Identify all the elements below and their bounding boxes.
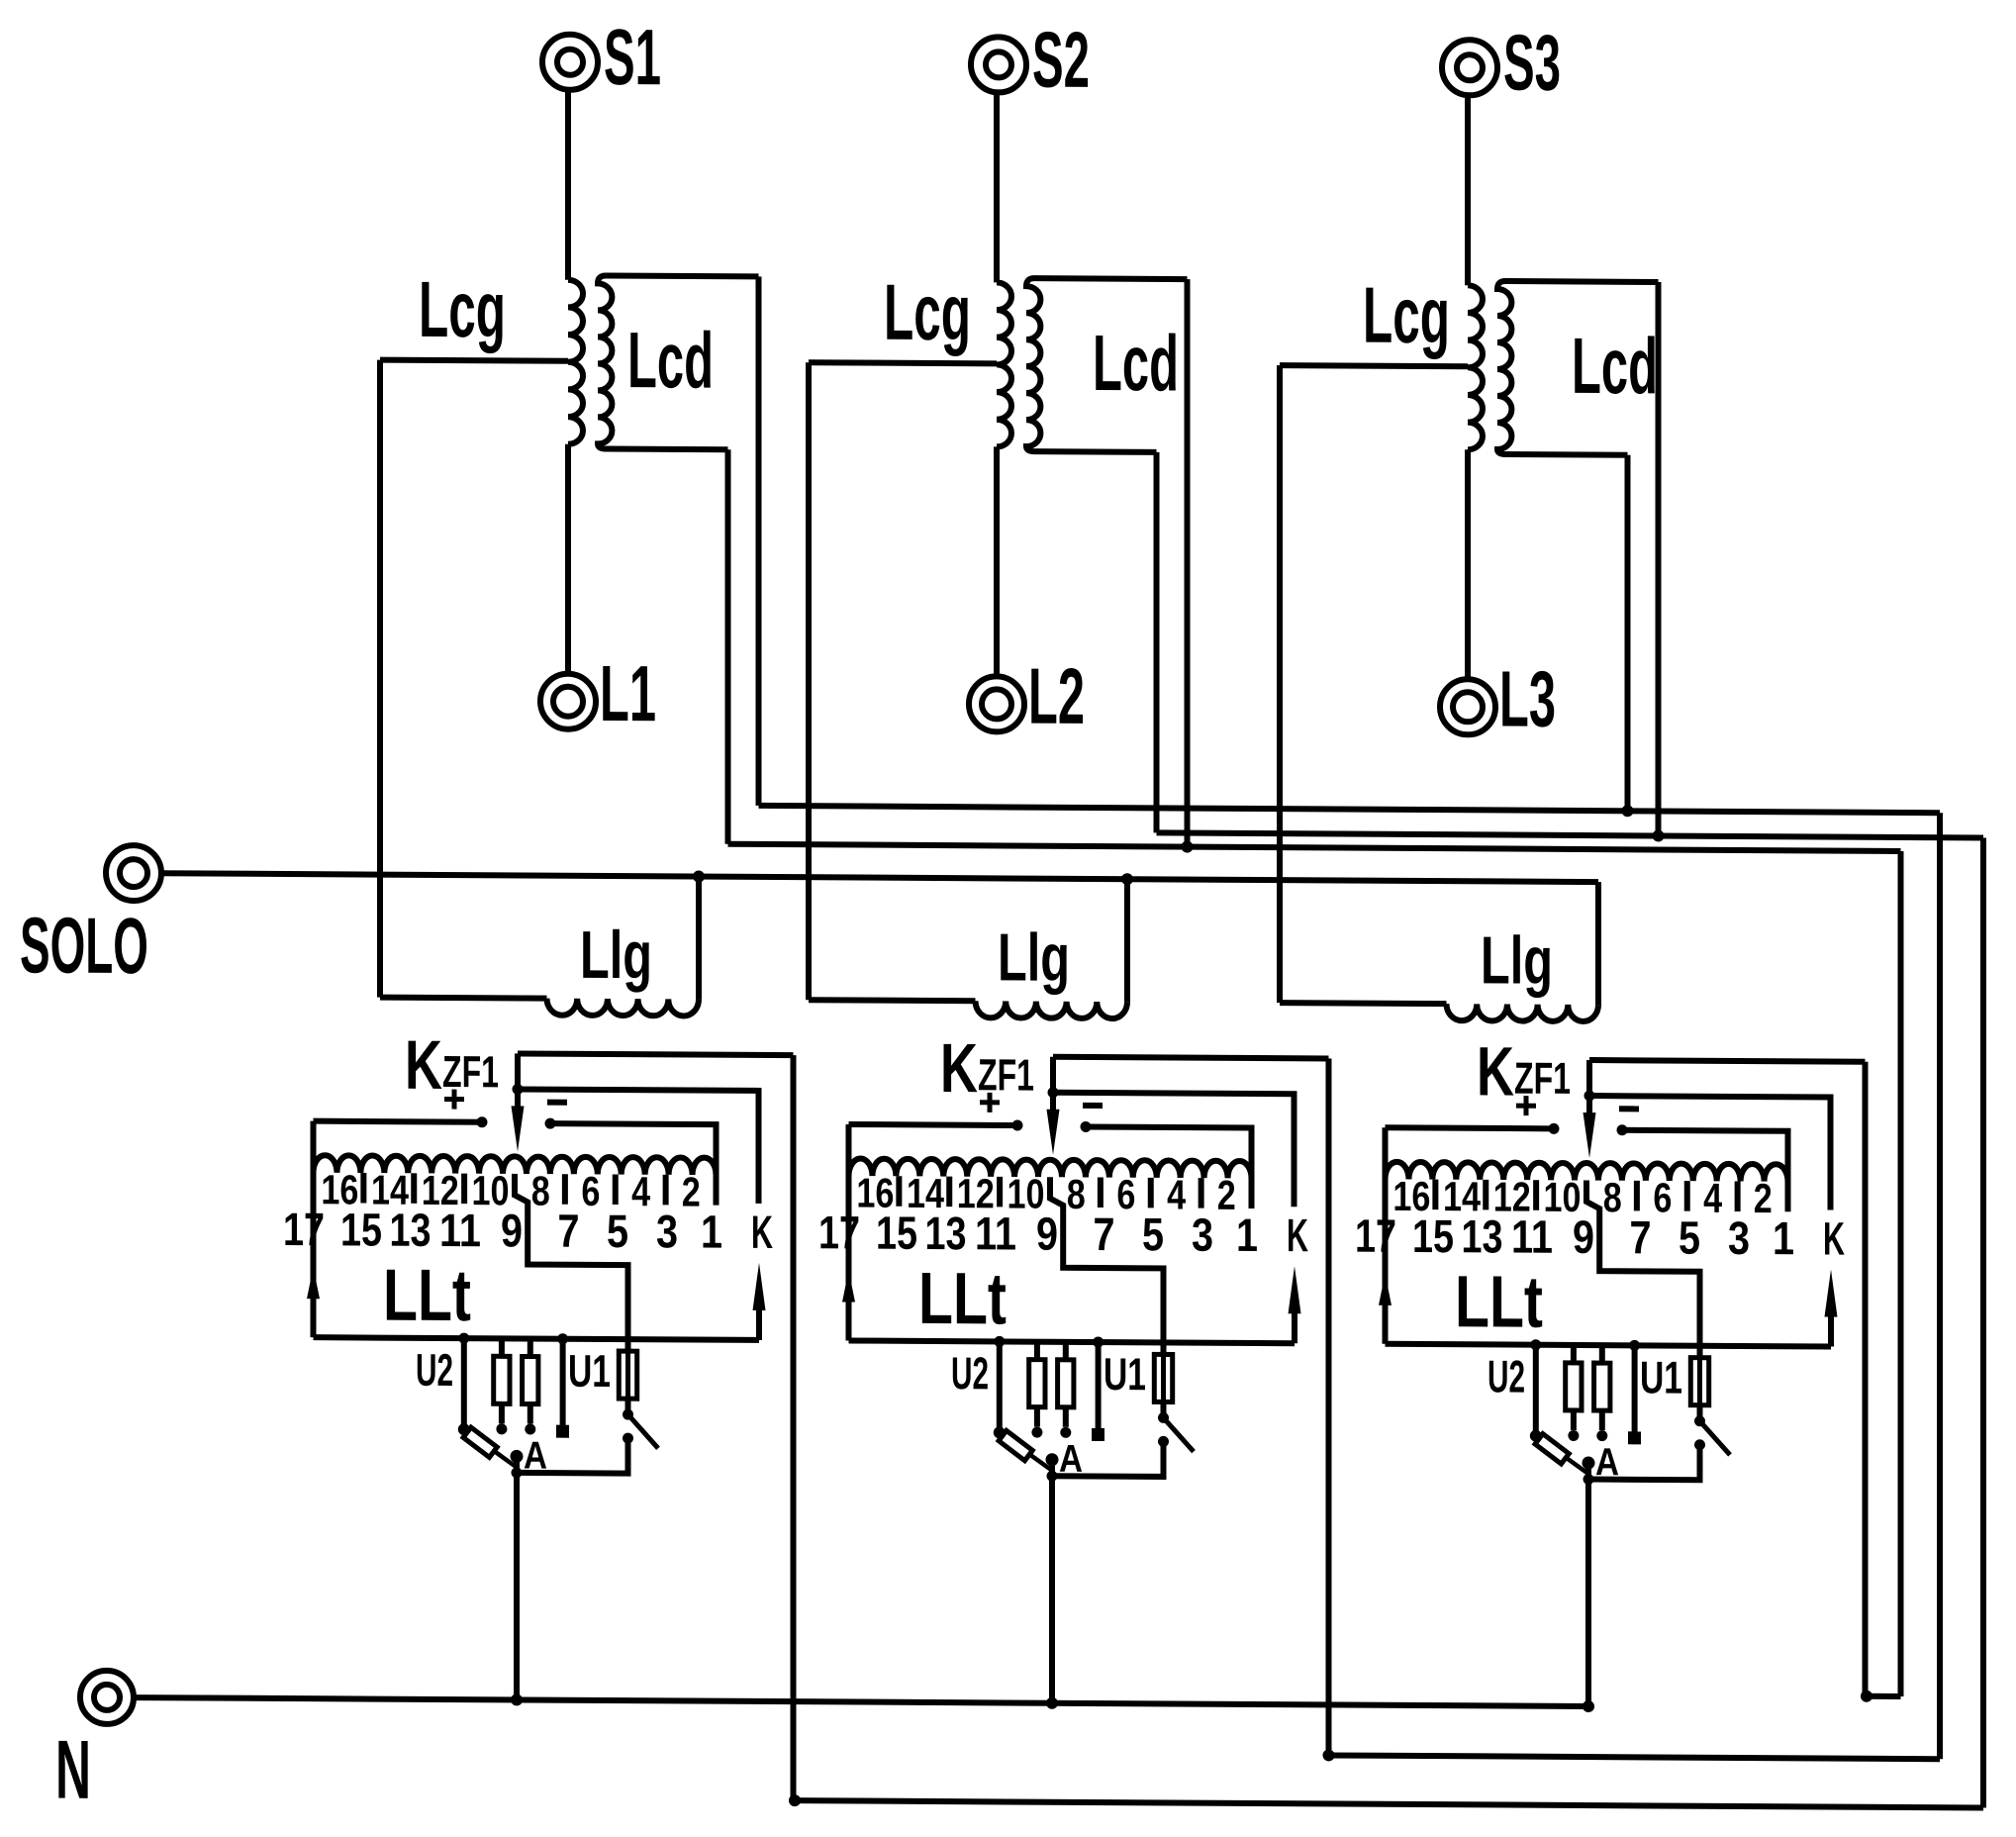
svg-text:5: 5 <box>607 1205 628 1257</box>
svg-text:9: 9 <box>1573 1210 1594 1263</box>
svg-text:U2: U2 <box>416 1344 453 1396</box>
wire Lcd bottom riser (phase 2) <box>1154 452 1160 833</box>
svg-text:LLt: LLt <box>383 1254 471 1337</box>
junction N bus block 2 <box>1046 1697 1058 1709</box>
svg-text:Lcg: Lcg <box>1363 271 1450 360</box>
svg-text:K: K <box>1287 1209 1308 1261</box>
junction drive wire (block 2) <box>1048 1087 1059 1098</box>
selector common wire bottom (block 3) <box>1386 1344 1832 1347</box>
wire to left switch contact (block 2) <box>997 1341 1003 1429</box>
wire S2 to winding Lcg <box>994 92 1000 282</box>
right switch return wire (block 2) <box>1052 1441 1164 1477</box>
junction Lcd3 top on bus B <box>1653 829 1665 841</box>
svg-text:6: 6 <box>1116 1171 1135 1217</box>
right switch lower contact (block 3) <box>1694 1439 1705 1450</box>
svg-text:ZF1: ZF1 <box>978 1049 1034 1100</box>
svg-text:17: 17 <box>283 1203 325 1255</box>
tap winding LLt (block 3) <box>1386 1162 1788 1182</box>
drive wire with down arrow (block 3) <box>1586 1060 1592 1115</box>
terminal S2 <box>971 37 1026 92</box>
svg-text:U2: U2 <box>1488 1350 1525 1402</box>
selector common wire bottom (block 2) <box>849 1340 1296 1343</box>
wire Lcg tap (phase 2) <box>809 362 997 363</box>
svg-text:8: 8 <box>1603 1174 1622 1220</box>
svg-text:13: 13 <box>925 1207 967 1259</box>
svg-text:15: 15 <box>340 1203 382 1255</box>
winding Llg (phase 3) <box>1447 1004 1598 1021</box>
wire to left switch contact (block 3) <box>1533 1345 1539 1433</box>
bus A right vertical <box>1937 813 1943 1759</box>
svg-text:17: 17 <box>818 1206 860 1258</box>
svg-text:3: 3 <box>1192 1209 1213 1261</box>
junction bus B to block 1 <box>789 1794 801 1806</box>
svg-text:1: 1 <box>1236 1209 1258 1261</box>
svg-text:Lcd: Lcd <box>1093 319 1179 408</box>
svg-text:7: 7 <box>558 1205 580 1257</box>
right switch return wire (block 1) <box>517 1437 628 1473</box>
svg-text:S2: S2 <box>1032 16 1090 104</box>
wire winding Lcg to terminal L2 <box>994 446 1000 676</box>
svg-text:LLt: LLt <box>1455 1260 1543 1343</box>
svg-text:A: A <box>524 1434 547 1477</box>
svg-text:K: K <box>405 1026 442 1104</box>
wire Lcg loop left vertical (phase 3) <box>1277 365 1283 1003</box>
svg-text:Llg: Llg <box>1481 922 1553 998</box>
right switch pivot dot (block 3) <box>1694 1415 1705 1426</box>
tap lead (block 1) <box>461 1174 467 1205</box>
svg-text:2: 2 <box>1217 1172 1236 1218</box>
svg-text:N: N <box>55 1723 91 1816</box>
wire Lcd top riser (phase 1) <box>756 276 762 806</box>
bus B horizontal (Lcd2 bottom / Lcd3 top) <box>1157 832 1984 837</box>
tap lead (block 1) <box>562 1174 568 1205</box>
plus contact dot (block 1) <box>477 1116 488 1127</box>
fuse F1 <box>619 1351 636 1399</box>
terminal SOLO <box>106 845 161 901</box>
svg-text:11: 11 <box>439 1204 481 1256</box>
U1 pad terminal (block 2) <box>1092 1428 1104 1441</box>
svg-text:S1: S1 <box>604 13 661 101</box>
junction Lcd2 top on bus C <box>1182 841 1194 853</box>
svg-text:L2: L2 <box>1028 652 1085 740</box>
svg-text:1: 1 <box>701 1206 722 1258</box>
junction U1 pad feed (block 2) <box>1093 1336 1104 1347</box>
resistor R2b <box>1063 1342 1069 1360</box>
selector arrow left (block 3) <box>1379 1274 1392 1305</box>
right switch blade (block 3) <box>1700 1421 1731 1455</box>
wire to U1 pad (block 3) <box>1632 1345 1638 1432</box>
wire S1 to winding Lcg <box>565 90 571 280</box>
svg-text:U2: U2 <box>951 1347 989 1399</box>
left rail vertical (block 2) <box>846 1124 852 1341</box>
terminal L1 <box>540 674 596 729</box>
svg-text:15: 15 <box>1412 1209 1454 1262</box>
wire Llg to SOLO bus (phase 2) <box>1124 879 1130 1002</box>
right switch lower contact (block 2) <box>1158 1436 1169 1447</box>
minus symbol (block 3) <box>1619 1106 1639 1112</box>
plus symbol (block 1) <box>444 1097 464 1102</box>
svg-text:6: 6 <box>1653 1174 1672 1220</box>
tap lead 9 long (block 1) <box>515 1174 628 1351</box>
svg-text:Lcg: Lcg <box>419 265 506 354</box>
bus B right vertical <box>1980 837 1986 1807</box>
wire Lcg tap (phase 1) <box>380 360 568 361</box>
wire fuse to switch (block 3) <box>1697 1405 1703 1421</box>
outer box right vertical (block 2) <box>1326 1058 1332 1755</box>
outer box right vertical (block 3) <box>1863 1062 1869 1696</box>
wire block 2 to N bus <box>1049 1459 1055 1703</box>
junction U1 pad feed (block 3) <box>1629 1340 1640 1351</box>
tap lead (block 1) <box>360 1173 366 1204</box>
plus contact dot (block 2) <box>1012 1119 1023 1130</box>
svg-text:1: 1 <box>1773 1211 1794 1264</box>
svg-text:Llg: Llg <box>580 918 652 993</box>
tap lead 9 long (block 3) <box>1586 1181 1700 1358</box>
minus contact dot (block 2) <box>1081 1121 1092 1132</box>
tap lead (block 3) <box>1735 1181 1741 1211</box>
svg-text:LLt: LLt <box>918 1257 1007 1340</box>
tap winding LLt (block 1) <box>314 1155 717 1175</box>
fuse F3 <box>1690 1358 1708 1405</box>
terminal S3 <box>1442 40 1497 95</box>
svg-text:ZF1: ZF1 <box>1514 1053 1571 1104</box>
right switch pivot dot (block 2) <box>1158 1412 1169 1423</box>
svg-text:S3: S3 <box>1503 19 1561 107</box>
plus symbol (block 2) <box>980 1100 1000 1105</box>
minus contact dot (block 3) <box>1617 1124 1628 1135</box>
tap lead (block 2) <box>1148 1178 1154 1209</box>
tap lead (block 3) <box>1533 1180 1539 1210</box>
winding Lcg (phase 3) <box>1468 285 1483 449</box>
wire to winding Llg (phase 3) <box>1280 1003 1447 1004</box>
svg-text:L1: L1 <box>600 649 656 737</box>
svg-text:8: 8 <box>531 1168 550 1214</box>
U1 pad terminal (block 3) <box>1628 1431 1641 1444</box>
selector arrow right K (block 1) <box>756 1308 762 1340</box>
inner wire to K terminal (block 3) <box>1589 1096 1831 1209</box>
junction switch return (block 2) <box>1047 1471 1058 1482</box>
resistor R3a <box>1571 1345 1577 1363</box>
switch pivot node A (block 2) <box>1046 1453 1059 1466</box>
terminal N <box>80 1671 134 1724</box>
resistor R2a <box>1034 1342 1040 1360</box>
svg-text:8: 8 <box>1067 1171 1086 1217</box>
svg-text:K: K <box>751 1206 773 1258</box>
wire Llg to SOLO bus (phase 3) <box>1595 882 1601 1005</box>
right switch lower contact (block 1) <box>623 1433 633 1444</box>
wire block 1 to N bus <box>514 1455 520 1699</box>
tap lead (block 1) <box>613 1175 619 1206</box>
tap lead (block 2) <box>997 1177 1003 1208</box>
svg-text:9: 9 <box>501 1204 523 1256</box>
switch pivot node A (block 1) <box>511 1450 524 1463</box>
plus symbol (block 3) <box>1516 1104 1536 1109</box>
wire Lcd bottom riser (phase 1) <box>725 449 731 844</box>
wire to left switch contact (block 1) <box>461 1338 467 1426</box>
N bus wire <box>135 1697 1588 1706</box>
selector arrow left (block 2) <box>842 1270 855 1302</box>
tap lead (block 2) <box>1199 1178 1204 1209</box>
outer box top wire (block 2) <box>1053 1057 1329 1059</box>
minus symbol (block 2) <box>1083 1103 1103 1109</box>
svg-text:4: 4 <box>1703 1175 1723 1221</box>
wire to U1 pad (block 1) <box>560 1339 566 1426</box>
svg-text:ZF1: ZF1 <box>442 1046 499 1097</box>
junction Lcd3 bottom on bus A <box>1622 805 1634 817</box>
svg-text:5: 5 <box>1142 1208 1164 1260</box>
tap lead (block 3) <box>1432 1180 1438 1210</box>
selector arrow left (block 1) <box>307 1267 320 1299</box>
right switch return wire (block 3) <box>1588 1444 1700 1480</box>
svg-text:9: 9 <box>1036 1208 1058 1260</box>
tap lead (block 2) <box>946 1177 952 1208</box>
svg-text:Lcd: Lcd <box>627 316 714 405</box>
junction left switch feed (block 3) <box>1530 1339 1541 1350</box>
wire winding Lcg to terminal L3 <box>1465 449 1471 679</box>
winding Lcd (phase 1) <box>598 275 759 449</box>
left switch fixed contact (block 2) <box>994 1426 1006 1438</box>
junction drive wire (block 3) <box>1584 1091 1595 1102</box>
winding Lcg (phase 1) <box>568 280 583 444</box>
junction bus A to block 2 <box>1323 1749 1335 1761</box>
svg-text:U1: U1 <box>568 1345 611 1397</box>
tap lead 9 long (block 2) <box>1050 1177 1164 1354</box>
svg-text:K: K <box>940 1029 978 1107</box>
junction N bus block 3 <box>1583 1700 1594 1712</box>
svg-text:3: 3 <box>656 1205 678 1257</box>
selector arrow right K (block 2) <box>1292 1311 1297 1343</box>
terminal L2 <box>969 676 1024 731</box>
wire to U1 pad (block 2) <box>1096 1342 1102 1429</box>
outer box top wire (block 3) <box>1589 1060 1866 1062</box>
wire Lcd bottom riser (phase 3) <box>1625 455 1631 811</box>
plus contact wire (block 2) <box>849 1124 1018 1125</box>
minus contact dot (block 1) <box>545 1118 556 1129</box>
bus B bottom return to block 1 <box>794 1800 1984 1807</box>
wire Lcg loop left vertical (phase 2) <box>806 362 812 1000</box>
drive wire with down arrow (block 2) <box>1050 1057 1056 1112</box>
wire block 3 to N bus <box>1585 1462 1591 1706</box>
tap lead (block 3) <box>1684 1181 1690 1211</box>
svg-text:2: 2 <box>1754 1175 1773 1221</box>
plus contact wire (block 3) <box>1386 1127 1555 1128</box>
svg-text:7: 7 <box>1630 1210 1652 1263</box>
svg-text:13: 13 <box>390 1204 432 1256</box>
wire Lcg loop left vertical (phase 1) <box>377 360 383 998</box>
junction switch return (block 1) <box>512 1467 523 1478</box>
inner wire to K terminal (block 1) <box>518 1089 759 1203</box>
tap lead (block 2) <box>1098 1178 1104 1209</box>
svg-text:U1: U1 <box>1104 1348 1146 1400</box>
wire Lcd top riser (phase 3) <box>1656 282 1662 836</box>
minus contact wire to winding end (block 3) <box>1622 1130 1788 1212</box>
junction U1 pad feed (block 1) <box>557 1333 568 1344</box>
wire Lcd top riser (phase 2) <box>1185 279 1191 847</box>
svg-text:U1: U1 <box>1640 1351 1682 1402</box>
outer box top wire (block 1) <box>518 1053 794 1055</box>
wire winding Lcg to terminal L1 <box>565 444 571 674</box>
wire to winding Llg (phase 1) <box>380 998 547 999</box>
svg-text:4: 4 <box>1167 1171 1187 1217</box>
selector arrow right K (block 3) <box>1828 1315 1834 1347</box>
terminal L3 <box>1440 679 1495 734</box>
SOLO bus wire <box>161 873 1598 882</box>
svg-text:13: 13 <box>1462 1209 1503 1262</box>
svg-text:15: 15 <box>876 1207 917 1259</box>
junction Llg-SOLO (phase 1) <box>693 871 705 883</box>
tap lead (block 1) <box>663 1175 669 1206</box>
svg-text:SOLO: SOLO <box>20 901 148 990</box>
bus C horizontal (Lcd1 bottom / Lcd2 top) <box>728 844 1901 851</box>
winding Lcg (phase 2) <box>997 282 1011 446</box>
svg-text:11: 11 <box>975 1207 1016 1259</box>
left switch blade (block 1) <box>464 1429 517 1467</box>
tap lead (block 1) <box>411 1173 417 1204</box>
junction bus C to block 3 <box>1861 1691 1872 1702</box>
bus A bottom return to block 2 <box>1329 1755 1941 1759</box>
tap lead (block 2) <box>896 1176 902 1207</box>
inner wire to K terminal (block 2) <box>1053 1093 1295 1207</box>
svg-text:Lcd: Lcd <box>1572 322 1658 411</box>
outer box right vertical (block 1) <box>791 1055 797 1800</box>
minus contact wire to winding end (block 1) <box>550 1123 717 1206</box>
bus C bottom return to block 3 <box>1866 1693 1901 1699</box>
plus contact dot (block 3) <box>1549 1123 1560 1134</box>
svg-text:6: 6 <box>581 1168 600 1214</box>
left switch fixed contact (block 3) <box>1530 1430 1542 1442</box>
resistor R3b <box>1599 1345 1605 1363</box>
wire Lcg tap (phase 3) <box>1280 365 1468 366</box>
terminal S1 <box>542 35 598 90</box>
svg-text:A: A <box>1059 1438 1083 1481</box>
selector common wire bottom (block 1) <box>314 1337 760 1340</box>
svg-text:4: 4 <box>631 1168 651 1214</box>
U1 pad terminal (block 1) <box>556 1425 569 1438</box>
wire to winding Llg (phase 2) <box>809 1000 976 1001</box>
svg-text:K: K <box>1477 1032 1514 1110</box>
svg-text:A: A <box>1595 1441 1619 1484</box>
plus contact wire (block 1) <box>314 1121 483 1122</box>
right switch blade (block 2) <box>1164 1417 1195 1451</box>
bus C right vertical <box>1898 851 1904 1696</box>
wire fuse to switch (block 2) <box>1161 1402 1167 1417</box>
left switch blade (block 2) <box>1000 1432 1052 1470</box>
svg-text:3: 3 <box>1728 1211 1750 1264</box>
left rail vertical (block 1) <box>311 1121 317 1338</box>
svg-text:7: 7 <box>1094 1208 1115 1260</box>
bus A horizontal (Lcd1 top / Lcd3 bottom) <box>759 806 1941 813</box>
right switch pivot dot (block 1) <box>623 1409 633 1420</box>
tap lead (block 3) <box>1634 1181 1640 1211</box>
junction Llg-SOLO (phase 2) <box>1121 873 1133 885</box>
left rail vertical (block 3) <box>1383 1127 1389 1344</box>
junction drive wire (block 1) <box>513 1084 524 1095</box>
junction switch return (block 3) <box>1584 1474 1594 1485</box>
minus contact wire to winding end (block 2) <box>1086 1126 1252 1209</box>
right switch blade (block 1) <box>628 1414 659 1448</box>
winding Lcd (phase 3) <box>1497 281 1659 455</box>
svg-text:17: 17 <box>1355 1209 1396 1262</box>
svg-text:2: 2 <box>682 1168 701 1214</box>
drive wire with down arrow (block 1) <box>515 1053 521 1109</box>
resistor R1b <box>528 1339 533 1357</box>
wire S3 to winding Lcg <box>1465 95 1471 285</box>
wire fuse to switch (block 1) <box>625 1399 631 1414</box>
fuse F2 <box>1154 1354 1172 1402</box>
winding Llg (phase 2) <box>976 1001 1127 1018</box>
svg-text:11: 11 <box>1511 1210 1553 1263</box>
switch pivot node A (block 3) <box>1583 1457 1595 1470</box>
winding Lcd (phase 2) <box>1026 278 1188 452</box>
wire Llg to SOLO bus (phase 1) <box>696 877 702 1000</box>
tap lead (block 3) <box>1483 1180 1488 1210</box>
minus symbol (block 1) <box>547 1100 567 1106</box>
junction left switch feed (block 2) <box>994 1336 1005 1347</box>
svg-text:Lcg: Lcg <box>884 268 971 357</box>
tap winding LLt (block 2) <box>849 1158 1252 1178</box>
svg-text:Llg: Llg <box>998 919 1070 995</box>
left switch blade (block 3) <box>1536 1436 1588 1474</box>
left switch fixed contact (block 1) <box>458 1423 470 1435</box>
junction N bus block 1 <box>511 1693 523 1705</box>
svg-text:L3: L3 <box>1499 654 1556 742</box>
svg-text:5: 5 <box>1679 1211 1700 1264</box>
winding Llg (phase 1) <box>547 999 700 1016</box>
svg-text:K: K <box>1823 1211 1845 1264</box>
resistor R1a <box>499 1338 505 1356</box>
junction left switch feed (block 1) <box>458 1333 469 1344</box>
